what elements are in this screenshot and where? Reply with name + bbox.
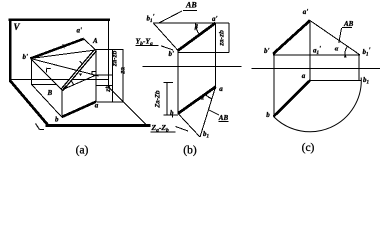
svg-text:α: α (335, 46, 339, 53)
projector B to b (61, 90, 63, 117)
leader from Yb-Ya label (161, 46, 173, 50)
svg-text:(c): (c) (302, 142, 315, 154)
X axis tick mark (36, 124, 40, 130)
line b' to A (31, 50, 96, 59)
za-zb box bottom tie at b' level (178, 52, 229, 54)
rotated true length a'b1' (310, 21, 360, 55)
XY ground line (252, 68, 381, 70)
svg-text:a: a (302, 72, 306, 80)
H plane bottom edge (thick) (46, 124, 151, 127)
true length hypotenuse b1'a' with extension to za-zb box (153, 22, 229, 24)
projector from b' down to b (177, 51, 179, 114)
svg-text:a: a (219, 85, 223, 93)
horizontal tie line below fold (31, 83, 56, 85)
angle arc alpha at b1' (345, 46, 348, 55)
V plane frame top edge (thick) (9, 18, 111, 21)
dimension tick mid (97, 85, 113, 87)
svg-text:b': b' (264, 47, 270, 55)
svg-text:a': a' (212, 15, 218, 23)
svg-text:Za-Zb: Za-Zb (155, 90, 162, 108)
unfold vertical below b' (30, 59, 32, 85)
right angle mark at B0 (92, 72, 96, 76)
dimension tick at a level (96, 101, 123, 103)
unfold slant to b (31, 84, 61, 117)
projector from a' down to a (215, 23, 217, 89)
length tick on AB (79, 61, 83, 64)
svg-text:za-zb: za-zb (219, 30, 226, 47)
angle arc at B (71, 80, 74, 85)
dimension tick at B0 level (93, 74, 112, 76)
svg-text:AB: AB (185, 1, 197, 10)
svg-text:a: a (95, 102, 99, 110)
projector b' to B (31, 59, 62, 91)
V plane frame bottom edge / fold line (11, 79, 109, 81)
svg-text:b': b' (169, 50, 175, 58)
svg-text:a': a' (77, 27, 83, 35)
frontal projection a'b' (thick) (178, 23, 216, 51)
za-zb box right edge (228, 23, 230, 53)
bracket bottom stub (172, 115, 174, 117)
dimension line za (122, 49, 124, 101)
V plane frame left edge (thick) (9, 19, 12, 83)
angle arc beta at a' (196, 23, 200, 35)
H plane right edge (thin diagonal) (108, 87, 146, 125)
svg-text:b': b' (23, 53, 29, 61)
projector A to a (95, 50, 97, 102)
line b' to B0 (31, 59, 99, 77)
angle arc alpha at a (205, 94, 212, 99)
svg-text:a': a' (303, 8, 309, 16)
dimension line za-zb / zb (111, 49, 113, 101)
svg-text:A: A (92, 37, 98, 45)
leader from lower AB label (209, 110, 219, 115)
svg-text:B: B (47, 89, 53, 97)
length tick on a'b' (63, 44, 64, 48)
true length hypotenuse a-b1 (200, 87, 216, 137)
horizontal projection ab (thick) (62, 102, 96, 117)
angle wedge at B (62, 85, 68, 90)
horizontal path b' to b1' (273, 54, 360, 56)
bracket bottom tick (164, 114, 178, 116)
svg-text:(a): (a) (76, 144, 89, 156)
frontal projection b'a' (thick) (273, 21, 310, 55)
rotation arc b to b1 (274, 78, 362, 132)
horizontal leg B-B0 of space triangle (62, 75, 96, 90)
projector b1' to b1 (358, 55, 360, 81)
svg-text:(b): (b) (183, 144, 197, 156)
small arrowhead on b'-B0 line (79, 73, 82, 76)
svg-text:b: b (170, 109, 174, 117)
projector a' to A (84, 39, 96, 50)
projector b' to b (273, 54, 275, 117)
leader from AB label (339, 28, 342, 43)
svg-text:b: b (55, 116, 59, 124)
svg-text:za-zb: za-zb (111, 50, 118, 67)
V plane frame right edge (thin) (107, 20, 109, 87)
top view projection ab (thick) (274, 81, 311, 117)
XY ground line (143, 65, 242, 67)
arc arrowhead (344, 54, 347, 57)
svg-text:AB: AB (218, 114, 229, 122)
dimension tick at A level (96, 48, 124, 50)
svg-text:AB: AB (343, 20, 354, 28)
svg-text:V: V (14, 22, 21, 32)
rotated position a-b1 horizontal (310, 79, 361, 81)
frontal projection a'b' (thick) (31, 39, 84, 59)
bracket top tick (164, 82, 174, 84)
axis vertical through a' and a (309, 21, 311, 81)
leg b1'b' (delta y) (153, 23, 178, 51)
top view projection ab (thick) (178, 87, 216, 114)
svg-text:za: za (120, 67, 127, 75)
leader from Za-Zb label (176, 127, 189, 132)
small right angle mark near b' projector (46, 68, 51, 72)
dimension bracket vertical (za-zb) (166, 83, 168, 116)
space line AB (thick double) (62, 50, 96, 90)
leader from AB label to hypotenuse (159, 11, 182, 23)
H plane left edge (thick diagonal) (10, 81, 48, 125)
svg-text:b: b (266, 111, 270, 119)
leg b-b1 (delta z) (178, 114, 200, 138)
svg-text:zb: zb (105, 85, 112, 93)
